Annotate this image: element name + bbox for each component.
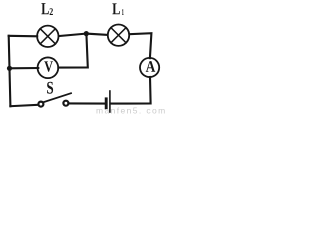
- battery negative plate: [105, 97, 108, 109]
- wire left vertical: [9, 36, 11, 106]
- wire switch to bottom left corner: [10, 105, 37, 106]
- wire voltmeter to riser corner and up to junction: [58, 34, 87, 68]
- wire battery to switch: [70, 102, 105, 104]
- label L1: [112, 3, 120, 14]
- switch lever: [43, 93, 71, 102]
- wire L1 to top right corner then down to ammeter: [130, 33, 152, 58]
- battery positive plate: [109, 90, 111, 113]
- voltmeter V: [38, 57, 59, 78]
- wire top left segment: [9, 35, 38, 38]
- label L2: [41, 3, 48, 14]
- lamp L1: [108, 25, 129, 46]
- label A inside ammeter: [146, 61, 155, 72]
- wire ammeter to bottom right corner then left to battery: [111, 77, 151, 104]
- ammeter A: [140, 58, 159, 77]
- wire left junction to voltmeter: [10, 67, 39, 69]
- wire L2 to junction: [59, 34, 86, 36]
- node junction left: [7, 66, 12, 71]
- switch right terminal: [63, 101, 68, 106]
- switch left terminal: [38, 102, 43, 107]
- wire junction to L1: [86, 34, 107, 35]
- lamp L2: [37, 26, 58, 47]
- label S: [47, 82, 53, 94]
- node junction top: [84, 31, 89, 36]
- label V inside voltmeter: [44, 61, 53, 71]
- svg-text:manfen5. com: manfen5. com: [96, 106, 167, 116]
